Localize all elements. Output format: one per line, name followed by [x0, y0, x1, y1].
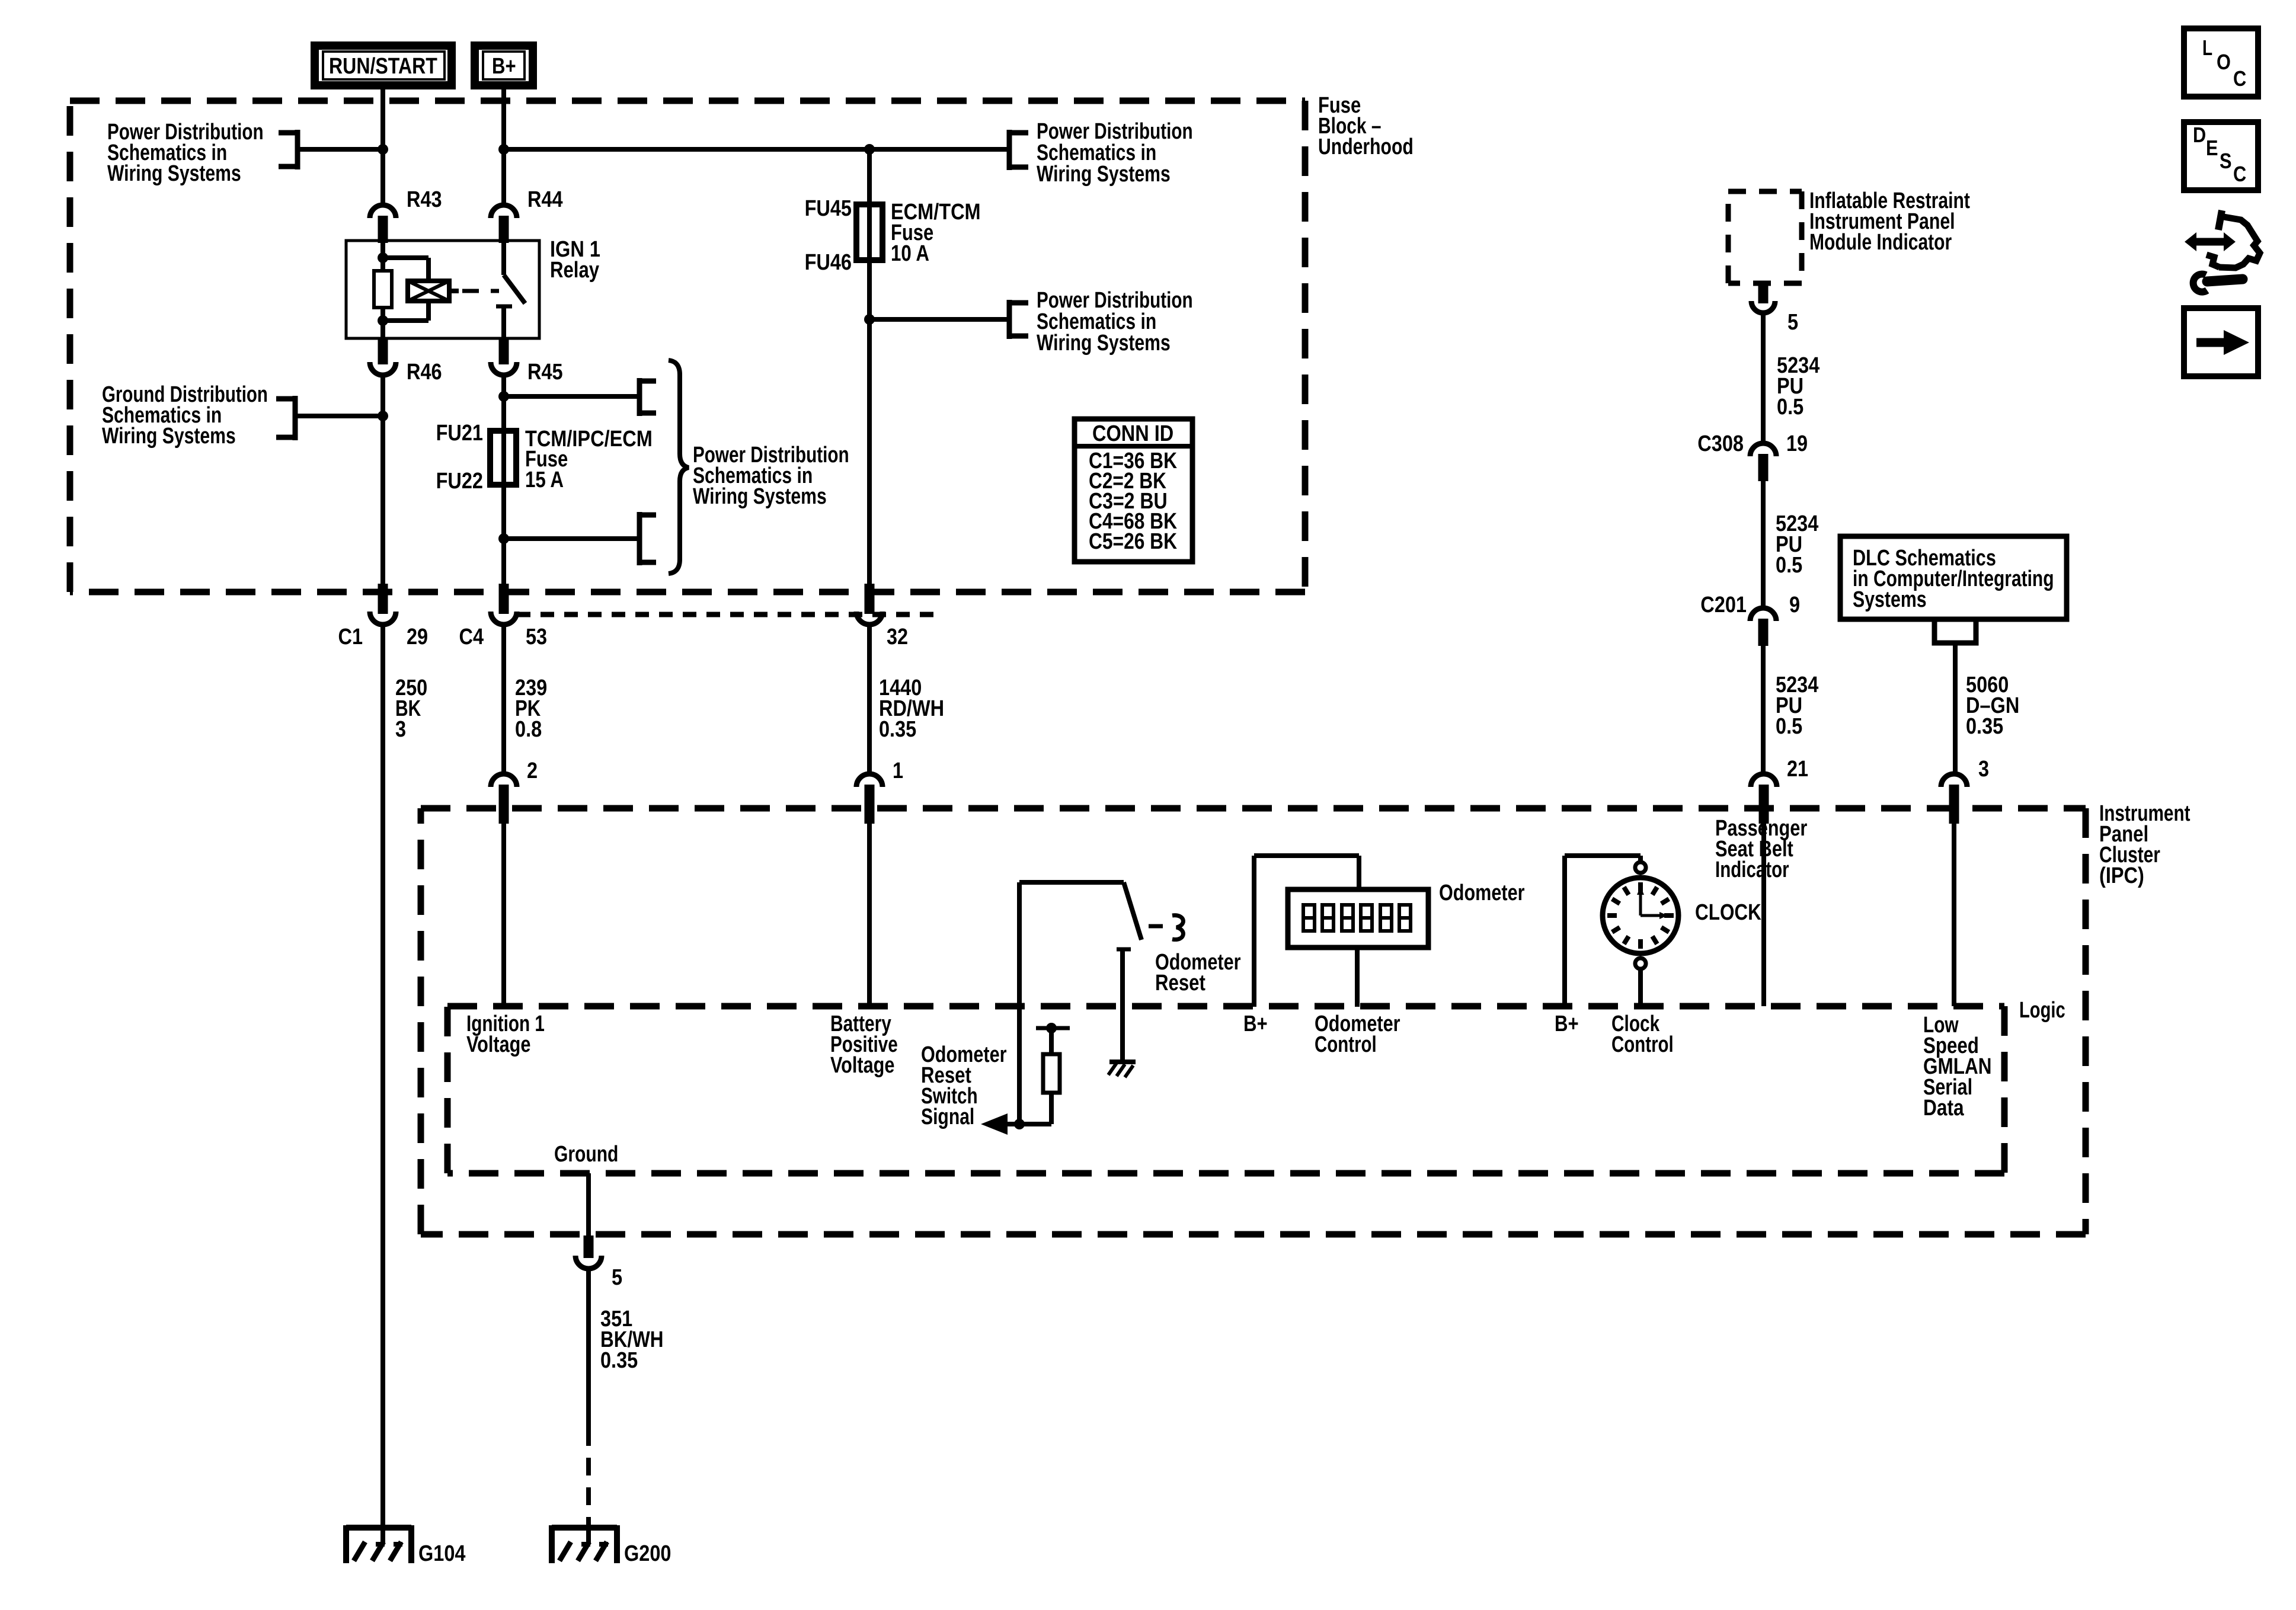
svg-text:0.35: 0.35 [1966, 714, 2003, 739]
svg-text:Reset: Reset [1155, 971, 1205, 996]
svg-text:19: 19 [1786, 431, 1808, 456]
svg-text:D: D [2193, 123, 2206, 147]
svg-text:10 A: 10 A [891, 241, 929, 266]
svg-text:Underhood: Underhood [1318, 135, 1414, 159]
svg-text:0.8: 0.8 [515, 717, 542, 742]
svg-text:Wiring Systems: Wiring Systems [1037, 162, 1171, 187]
svg-text:Voltage: Voltage [466, 1032, 530, 1057]
svg-text:Wiring Systems: Wiring Systems [693, 484, 827, 509]
svg-text:R45: R45 [527, 360, 563, 385]
svg-text:Voltage: Voltage [830, 1053, 894, 1078]
svg-text:Signal: Signal [921, 1105, 974, 1129]
svg-text:0.35: 0.35 [600, 1348, 638, 1373]
svg-text:Ground: Ground [554, 1142, 618, 1167]
svg-text:Logic: Logic [2019, 998, 2065, 1023]
svg-text:Wiring Systems: Wiring Systems [107, 161, 241, 186]
svg-text:0.5: 0.5 [1776, 714, 1802, 739]
svg-text:FU22: FU22 [436, 469, 483, 494]
svg-text:5: 5 [612, 1265, 622, 1290]
svg-text:3: 3 [1978, 757, 1989, 782]
svg-text:0.5: 0.5 [1776, 553, 1802, 578]
svg-text:B+: B+ [1243, 1012, 1268, 1036]
svg-text:B+: B+ [492, 54, 516, 79]
svg-text:Module Indicator: Module Indicator [1809, 230, 1952, 255]
svg-text:(IPC): (IPC) [2099, 863, 2144, 888]
svg-text:Indicator: Indicator [1715, 857, 1789, 882]
svg-text:C5=26 BK: C5=26 BK [1089, 529, 1177, 554]
svg-text:S: S [2220, 149, 2232, 173]
svg-text:Wiring Systems: Wiring Systems [1037, 331, 1171, 356]
svg-text:Control: Control [1315, 1032, 1377, 1057]
svg-text:R44: R44 [527, 187, 563, 212]
svg-text:Systems: Systems [1853, 587, 1927, 612]
svg-text:Relay: Relay [550, 258, 599, 283]
svg-text:RUN/START: RUN/START [329, 54, 437, 79]
svg-text:0.5: 0.5 [1777, 395, 1803, 420]
svg-text:FU46: FU46 [805, 250, 852, 275]
svg-text:Wiring Systems: Wiring Systems [102, 424, 236, 449]
svg-text:Data: Data [1923, 1096, 1964, 1121]
svg-text:0.35: 0.35 [879, 717, 916, 742]
svg-text:CONN ID: CONN ID [1092, 421, 1173, 446]
svg-text:C: C [2233, 162, 2246, 186]
svg-text:FU45: FU45 [805, 196, 852, 221]
svg-text:21: 21 [1787, 757, 1808, 782]
svg-text:2: 2 [527, 758, 538, 783]
svg-text:C1: C1 [338, 625, 363, 649]
svg-text:R43: R43 [407, 187, 442, 212]
svg-text:53: 53 [526, 625, 547, 649]
svg-text:C308: C308 [1697, 431, 1744, 456]
svg-text:1: 1 [893, 758, 903, 783]
svg-text:C: C [2233, 66, 2246, 91]
svg-text:G200: G200 [624, 1541, 671, 1566]
svg-text:C201: C201 [1700, 593, 1747, 617]
svg-text:5: 5 [1787, 310, 1798, 335]
svg-text:L: L [2202, 36, 2212, 60]
svg-text:32: 32 [887, 625, 908, 649]
svg-text:R46: R46 [407, 360, 442, 385]
svg-text:C4: C4 [459, 625, 484, 649]
svg-text:CLOCK: CLOCK [1695, 900, 1761, 925]
svg-text:9: 9 [1789, 593, 1800, 617]
svg-text:G104: G104 [418, 1541, 466, 1566]
svg-text:O: O [2217, 50, 2231, 74]
svg-text:E: E [2206, 136, 2218, 160]
svg-text:3: 3 [395, 717, 406, 742]
svg-text:Odometer: Odometer [1439, 881, 1525, 905]
svg-text:15 A: 15 A [525, 468, 564, 492]
svg-text:Control: Control [1611, 1032, 1674, 1057]
svg-text:29: 29 [407, 625, 428, 649]
svg-text:FU21: FU21 [436, 421, 483, 446]
svg-text:B+: B+ [1555, 1012, 1579, 1036]
